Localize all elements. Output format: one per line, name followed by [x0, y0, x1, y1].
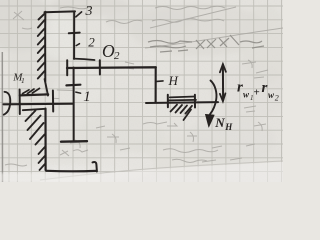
svg-text:+: + [254, 87, 260, 99]
svg-text:1: 1 [21, 76, 25, 85]
svg-text:3: 3 [85, 4, 93, 19]
svg-text:H: H [168, 73, 179, 88]
svg-text:w: w [243, 90, 250, 100]
svg-text:2: 2 [114, 50, 120, 62]
svg-text:1: 1 [83, 89, 91, 105]
svg-text:N: N [214, 115, 225, 130]
svg-text:H: H [224, 122, 233, 132]
svg-text:2: 2 [88, 35, 95, 50]
svg-text:2: 2 [275, 94, 279, 103]
svg-text:r: r [262, 80, 268, 96]
